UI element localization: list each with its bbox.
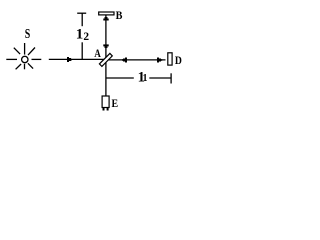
arrowhead down above splitter A <box>103 44 108 48</box>
wire beam B to A to E vertical <box>105 15 107 96</box>
dimension line l2 T bar <box>77 12 86 14</box>
arrowhead up at mirror B <box>103 17 108 21</box>
dimension l1 end tick <box>170 73 172 83</box>
dimension line l2 lower segment <box>81 42 83 59</box>
svg-text:D: D <box>175 53 182 67</box>
arrowhead left on A-D beam <box>122 58 127 63</box>
dimension line l1 right segment <box>149 77 171 79</box>
svg-text:E: E <box>112 96 119 110</box>
arrowhead right on S beam <box>67 57 72 62</box>
screen E body <box>102 96 109 108</box>
svg-text:1: 1 <box>143 73 148 84</box>
svg-text:A: A <box>94 46 101 60</box>
svg-text:S: S <box>25 27 31 42</box>
mirror B <box>99 12 114 15</box>
source S lamp circle <box>22 56 28 62</box>
dimension line l1 left segment <box>106 77 134 79</box>
mirror D <box>168 53 172 65</box>
arrowhead right near mirror D <box>157 58 162 63</box>
svg-text:1: 1 <box>76 26 84 42</box>
svg-text:2: 2 <box>83 31 89 43</box>
screen E feet <box>103 108 105 111</box>
dimension line l2 upper segment <box>81 13 83 26</box>
wire beam A to D <box>106 59 166 61</box>
svg-text:B: B <box>116 8 123 22</box>
source S rays <box>6 43 41 69</box>
wire beam S to A <box>49 58 106 60</box>
beam splitter A plate <box>99 53 112 66</box>
